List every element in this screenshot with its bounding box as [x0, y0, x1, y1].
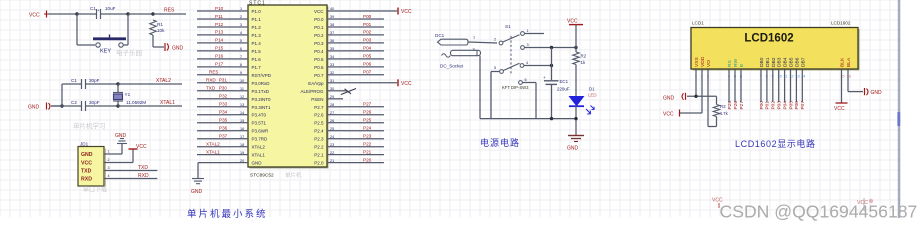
svg-text:P15: P15 [215, 46, 224, 51]
wires MCU left nets [197, 11, 233, 139]
svg-text:16: 16 [240, 127, 244, 131]
svg-text:23: 23 [330, 143, 334, 147]
label D1 [589, 87, 595, 92]
svg-text:P1.6: P1.6 [252, 57, 262, 62]
net fragment right [857, 198, 873, 211]
wire pole5 return [491, 72, 500, 119]
wires LCD control nets [729, 70, 741, 103]
capacitor C3 [90, 9, 107, 19]
label LED [588, 93, 597, 98]
svg-text:EC1: EC1 [560, 79, 569, 84]
svg-text:DB2: DB2 [771, 57, 777, 67]
svg-text:单片机: 单片机 [285, 171, 302, 179]
label EC1 [560, 79, 569, 84]
svg-text:14: 14 [240, 111, 244, 115]
svg-text:P0.5: P0.5 [314, 57, 324, 62]
net label XTAL2 [156, 78, 171, 84]
wire cap right [107, 13, 128, 15]
wire MCU gnd [198, 163, 233, 179]
caption power circuit [480, 137, 520, 148]
svg-text:P13: P13 [215, 30, 224, 35]
svg-text:2: 2 [108, 158, 110, 162]
svg-text:P1.0: P1.0 [252, 9, 262, 14]
wire RES stub [153, 13, 186, 15]
svg-text:24: 24 [330, 135, 334, 139]
svg-text:RXD: RXD [81, 177, 92, 183]
svg-text:P3.2INT0: P3.2INT0 [252, 97, 272, 102]
svg-text:GND: GND [172, 46, 184, 52]
node ec1 tap [550, 46, 553, 49]
net labels P2 [363, 102, 372, 163]
svg-text:P0.3: P0.3 [314, 41, 324, 46]
svg-text:VCC: VCC [136, 144, 147, 150]
svg-text:10uF: 10uF [105, 6, 116, 11]
svg-text:1k: 1k [581, 60, 586, 65]
node xtal2 [116, 82, 119, 85]
svg-text:电源电路: 电源电路 [480, 137, 520, 148]
svg-text:TXD: TXD [138, 165, 148, 171]
node reset-top-left [75, 12, 78, 15]
svg-text:P25: P25 [727, 101, 733, 110]
svg-text:XTAL2: XTAL2 [156, 78, 171, 84]
svg-text:26: 26 [330, 119, 334, 123]
net labels P0 [363, 14, 372, 75]
IC U1 pin names [252, 9, 325, 166]
svg-text:P32: P32 [219, 94, 228, 99]
svg-text:DB3: DB3 [777, 57, 783, 67]
wire J1 pin4 [104, 178, 157, 180]
svg-text:27: 27 [330, 111, 334, 115]
svg-text:P05: P05 [788, 101, 794, 110]
svg-text:P30: P30 [219, 86, 227, 91]
wire J1 pin2 [104, 149, 133, 163]
svg-text:P16: P16 [215, 54, 224, 59]
svg-text:VCC: VCC [401, 81, 412, 87]
svg-text:RES: RES [209, 70, 218, 75]
wire LCD VSS [687, 70, 717, 97]
net labels MCU left [206, 6, 228, 139]
connector J1 body [78, 147, 106, 187]
connector J1 designator [80, 142, 89, 147]
wire LCD BLA [848, 70, 863, 92]
switch S1 designator [505, 24, 511, 29]
svg-text:17: 17 [240, 135, 244, 139]
svg-text:2: 2 [494, 38, 496, 42]
svg-text:DB0: DB0 [759, 57, 765, 67]
svg-text:18: 18 [240, 143, 244, 147]
svg-text:LCD1602显示电路: LCD1602显示电路 [735, 138, 816, 149]
svg-text:P27: P27 [739, 101, 745, 110]
svg-text:39: 39 [330, 15, 334, 19]
wire LCD VO [708, 70, 717, 127]
svg-text:4.7k: 4.7k [720, 111, 729, 116]
svg-text:P1.3: P1.3 [252, 33, 262, 38]
svg-text:P1.5: P1.5 [252, 49, 262, 54]
caption minimum system [187, 208, 268, 220]
power port VCC (backlight) [834, 103, 848, 112]
LCD pin names [694, 56, 852, 67]
svg-text:VCC: VCC [567, 19, 578, 25]
power port GND (xtal) [28, 103, 50, 111]
svg-text:VCC: VCC [834, 106, 845, 112]
svg-text:1: 1 [108, 150, 110, 154]
svg-text:5: 5 [494, 66, 496, 70]
svg-text:GND: GND [28, 105, 40, 111]
wire throw4 to cap stem [524, 65, 552, 67]
net label TXD [138, 165, 148, 171]
svg-text:12: 12 [240, 95, 244, 99]
wires MCU P2 nets [343, 107, 384, 163]
svg-text:C1: C1 [71, 78, 77, 83]
svg-text:DB5: DB5 [789, 57, 795, 67]
net label XTAL1 [160, 100, 175, 106]
watermark text under J1 (gray) [83, 186, 107, 194]
svg-text:10k: 10k [157, 28, 165, 33]
svg-text:VCC: VCC [401, 9, 412, 15]
svg-text:P31: P31 [219, 78, 227, 83]
value 220uF [557, 87, 570, 92]
svg-text:P27: P27 [363, 102, 372, 107]
IC U1 body [248, 5, 329, 169]
net labels LCD data [759, 101, 806, 110]
svg-text:单片机学习: 单片机学习 [73, 121, 106, 130]
svg-text:XTAL2: XTAL2 [252, 145, 266, 150]
svg-text:P24: P24 [363, 126, 372, 131]
svg-text:LCD1: LCD1 [692, 21, 704, 26]
svg-text:BLA: BLA [846, 57, 852, 67]
connector DC1 designator [435, 33, 445, 38]
node LCD vss-gnd [694, 95, 697, 98]
wire J1 pin1 [104, 153, 122, 155]
svg-text:VDD: VDD [700, 56, 706, 67]
svg-text:6: 6 [525, 78, 527, 82]
svg-text:P10: P10 [215, 6, 224, 11]
svg-text:VCC: VCC [314, 9, 324, 14]
svg-text:S1: S1 [505, 24, 511, 29]
svg-text:电子乐园: 电子乐园 [116, 48, 142, 57]
svg-text:P2.5: P2.5 [314, 121, 324, 126]
svg-text:1: 1 [527, 29, 529, 33]
svg-text:P03: P03 [363, 38, 372, 43]
switch S1 throw pin4 [520, 61, 528, 67]
svg-text:TXD: TXD [206, 86, 216, 91]
svg-text:3: 3 [108, 166, 110, 170]
value 1k [581, 60, 586, 65]
svg-text:TXD: TXD [81, 169, 92, 175]
svg-text:P3.4T0: P3.4T0 [252, 113, 267, 118]
svg-text:P3.7RD: P3.7RD [252, 137, 269, 142]
net label XTAL2 (MCU) [206, 142, 220, 147]
caption LCD circuit [735, 138, 816, 149]
svg-text:3: 3 [240, 23, 242, 27]
crystal Y1 [113, 84, 123, 106]
svg-text:P33: P33 [219, 102, 228, 107]
svg-text:R3: R3 [720, 104, 726, 109]
svg-text:38: 38 [330, 23, 334, 27]
svg-text:9: 9 [240, 71, 242, 75]
svg-text:DB4: DB4 [783, 57, 789, 67]
svg-text:P04: P04 [363, 46, 372, 51]
node xtal-left-bottom [60, 104, 63, 107]
capacitor EC1 [543, 48, 559, 119]
power port GND (reset) [165, 43, 184, 52]
svg-text:GND: GND [567, 146, 579, 152]
wire throw3 to vcc line [525, 47, 577, 49]
wire led down [575, 106, 577, 135]
svg-text:VCC: VCC [29, 13, 40, 19]
svg-text:29: 29 [330, 95, 334, 99]
svg-text:10: 10 [240, 79, 244, 83]
IC U1 designator [249, 1, 266, 7]
svg-text:11.0592M: 11.0592M [126, 100, 146, 105]
svg-text:4: 4 [108, 174, 110, 178]
svg-text:P12: P12 [215, 22, 224, 27]
switch S1 throw pin6 [519, 78, 527, 84]
wire J1 pin3 [104, 170, 157, 172]
svg-text:P1.2: P1.2 [252, 25, 262, 30]
svg-text:P00: P00 [363, 14, 372, 19]
node reset-top-right [126, 12, 129, 15]
svg-text:P21: P21 [363, 149, 372, 154]
wire node down-left [77, 14, 95, 45]
wire LCD BLK [841, 70, 843, 103]
net label XTAL1 (MCU) [206, 149, 220, 154]
wires LCD data nets [761, 70, 802, 103]
watermark text under xtal (gray) [73, 121, 106, 130]
svg-text:P2.1: P2.1 [314, 153, 324, 158]
LCD type label [831, 21, 851, 26]
power port VCC (EA) [398, 79, 412, 87]
svg-text:33: 33 [330, 63, 334, 67]
svg-text:VSS: VSS [694, 56, 700, 67]
svg-text:P3.6WR: P3.6WR [252, 129, 270, 134]
capacitor C2 label [71, 100, 100, 105]
power port VCC (bottom fragment) [712, 198, 723, 209]
svg-text:P2.0: P2.0 [314, 161, 324, 166]
svg-text:DC_Socket: DC_Socket [440, 64, 464, 69]
svg-text:P37: P37 [219, 134, 228, 139]
LCD U2 body [691, 28, 860, 71]
power port GND (LCD right) [865, 88, 883, 96]
ground (supply) [567, 136, 584, 152]
svg-text:P2.2: P2.2 [314, 145, 324, 150]
wire node to RES [128, 13, 153, 15]
svg-text:P2.4: P2.4 [314, 129, 324, 134]
IC U1 part number [250, 171, 302, 179]
svg-text:22: 22 [330, 151, 334, 155]
svg-text:P22: P22 [363, 142, 372, 147]
svg-text:DB6: DB6 [794, 57, 800, 67]
svg-text:P11: P11 [215, 14, 223, 19]
power port GND (LCD left) [663, 93, 686, 102]
svg-text:GND: GND [81, 152, 93, 158]
svg-text:D1: D1 [589, 87, 595, 92]
svg-text:P3.5T1: P3.5T1 [252, 121, 267, 126]
wire vcc down [575, 25, 577, 52]
net label RXD [138, 173, 149, 179]
node RES [151, 12, 154, 15]
svg-text:XTAL1: XTAL1 [160, 100, 175, 106]
switch S1 link (dashed) [510, 36, 512, 74]
svg-text:P26: P26 [363, 110, 372, 115]
svg-text:EA/Vpp: EA/Vpp [308, 81, 324, 86]
net labels LCD control [727, 101, 745, 110]
svg-text:CSDN @QQ1694456187: CSDN @QQ1694456187 [720, 202, 918, 222]
svg-text:28: 28 [330, 103, 334, 107]
svg-text:P0.1: P0.1 [314, 25, 324, 30]
capacitor C1 label [71, 78, 100, 83]
svg-text:P07: P07 [363, 70, 372, 75]
value 4.7k [720, 111, 729, 116]
svg-text:11: 11 [240, 87, 244, 91]
svg-text:15: 15 [240, 119, 244, 123]
svg-text:RS: RS [727, 59, 733, 67]
connector J1 pin numbers [108, 150, 110, 179]
svg-text:XTAL1: XTAL1 [252, 153, 266, 158]
resistor R2 [573, 52, 579, 65]
svg-text:RXD: RXD [206, 78, 216, 83]
svg-text:30pF: 30pF [89, 100, 100, 105]
svg-text:P06: P06 [363, 62, 372, 67]
wire socket pin1 [468, 36, 497, 44]
svg-text:BLK: BLK [840, 57, 846, 67]
svg-text:30: 30 [330, 87, 334, 91]
svg-text:P02: P02 [771, 101, 777, 110]
svg-text:KFT DIP-SW3: KFT DIP-SW3 [502, 85, 529, 90]
svg-text:P25: P25 [363, 118, 372, 123]
svg-text:32: 32 [330, 71, 334, 75]
LCD title text [744, 33, 793, 45]
wire cap left [77, 13, 90, 15]
IC U1 pin numbers [240, 7, 334, 163]
svg-text:VO: VO [706, 60, 712, 67]
svg-text:P00: P00 [759, 101, 765, 110]
svg-text:P1.7: P1.7 [252, 65, 262, 70]
svg-text:R2: R2 [581, 54, 587, 59]
node stem-throw4 [550, 64, 553, 67]
CSDN watermark [720, 202, 918, 222]
wire xtal2 net [118, 83, 182, 85]
svg-text:RST/VPD: RST/VPD [252, 73, 272, 78]
node main-top [574, 46, 577, 49]
svg-text:P02: P02 [363, 30, 372, 35]
svg-text:P1.1: P1.1 [252, 17, 262, 22]
svg-text:P2.7: P2.7 [314, 105, 324, 110]
switch S1 pole B [494, 63, 520, 73]
svg-text:P05: P05 [363, 54, 372, 59]
svg-text:LCD1602: LCD1602 [744, 33, 793, 45]
sheet right border line [898, 0, 901, 218]
svg-text:35: 35 [330, 47, 334, 51]
no-connect ALE [341, 89, 356, 95]
svg-text:7: 7 [240, 55, 242, 59]
power port VCC (supply) [567, 19, 583, 25]
svg-text:GND: GND [663, 96, 675, 102]
node power-bottom [574, 117, 577, 120]
svg-text:GND: GND [252, 161, 263, 166]
svg-text:37: 37 [330, 31, 334, 35]
wire XTAL1 pin [197, 154, 233, 156]
svg-text:RES: RES [164, 8, 175, 14]
svg-text:GND: GND [191, 189, 203, 195]
power port VCC (pin40) [398, 8, 412, 16]
wire gnd to node [51, 105, 62, 107]
svg-text:2: 2 [240, 15, 242, 19]
value 11.0592M [126, 100, 146, 105]
resistor R1 [150, 20, 156, 35]
wire R1 to gnd [153, 35, 164, 47]
wire xtal1 net [118, 105, 182, 107]
label KEY [100, 49, 111, 55]
svg-text:P01: P01 [765, 101, 771, 110]
wire EA pin31 [343, 82, 397, 84]
svg-text:3: 3 [473, 48, 475, 52]
svg-text:8: 8 [240, 63, 242, 67]
svg-text:P2.6: P2.6 [314, 113, 324, 118]
wire LCD VDD [679, 70, 702, 114]
net label RES [164, 8, 175, 14]
node xtal1 [116, 104, 119, 107]
label R3 [720, 104, 726, 109]
wire throw6 down [523, 83, 537, 119]
svg-text:DB7: DB7 [800, 57, 806, 67]
svg-text:P0.4: P0.4 [314, 49, 324, 54]
resistor R3 [713, 96, 719, 116]
svg-text:KEY: KEY [100, 49, 111, 55]
svg-text:21: 21 [330, 159, 334, 163]
svg-text:+: + [543, 75, 546, 80]
svg-text:R1: R1 [157, 22, 163, 27]
svg-text:JD1: JD1 [80, 142, 89, 147]
svg-text:P0.7: P0.7 [314, 73, 324, 78]
svg-text:5: 5 [240, 39, 242, 43]
connector J1 pin names [81, 152, 93, 183]
svg-text:6: 6 [240, 47, 242, 51]
svg-text:串口下载: 串口下载 [83, 186, 107, 194]
svg-text:Y1: Y1 [125, 92, 131, 97]
svg-text:P3.0RxD: P3.0RxD [252, 81, 271, 86]
svg-text:ALE/PROG: ALE/PROG [300, 89, 324, 94]
svg-text:P0.6: P0.6 [314, 65, 324, 70]
svg-text:P20: P20 [363, 157, 372, 162]
svg-text:P17: P17 [215, 62, 224, 67]
svg-text:VCC: VCC [663, 112, 674, 118]
label KFT DIP-SW3 [502, 85, 529, 90]
switch S1 throw pin3 [521, 43, 529, 49]
svg-text:P03: P03 [777, 101, 783, 110]
svg-text:P34: P34 [219, 110, 228, 115]
svg-text:4: 4 [526, 61, 528, 65]
value 10k [157, 28, 165, 33]
svg-text:P23: P23 [363, 134, 372, 139]
svg-text:C1: C1 [90, 6, 96, 11]
power port VCC (J1) [129, 144, 147, 150]
svg-text:P3.1TxD: P3.1TxD [252, 89, 270, 94]
power port VCC (reset) [29, 11, 48, 19]
wire xtal left vertical [61, 84, 63, 106]
svg-text:20: 20 [240, 159, 244, 163]
svg-text:1: 1 [240, 7, 242, 11]
capacitor C3 label [90, 6, 116, 13]
switch S1 throw pin1 [521, 29, 529, 35]
capacitor C1 [62, 79, 118, 89]
svg-text:PSEN: PSEN [311, 97, 323, 102]
svg-text:40: 40 [330, 7, 334, 11]
wires MCU P0 nets [343, 19, 384, 75]
LCD designator LCD1 [692, 21, 704, 26]
svg-text:P01: P01 [363, 22, 372, 27]
svg-text:GND: GND [871, 90, 883, 96]
